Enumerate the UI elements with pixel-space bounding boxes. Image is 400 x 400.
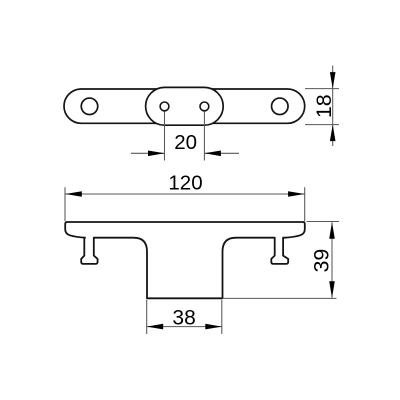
dimension 38: left arrow bbox=[147, 324, 164, 330]
svg-text:120: 120 bbox=[168, 171, 202, 194]
centre boss (top view bulge) bbox=[146, 87, 224, 125]
dimension 120: extension lines bbox=[65, 187, 305, 221]
dimension 18: extension lines bbox=[305, 89, 339, 125]
svg-text:18: 18 bbox=[312, 94, 336, 118]
dimension 39: top arrow bbox=[329, 222, 335, 239]
svg-text:20: 20 bbox=[174, 131, 197, 154]
svg-text:38: 38 bbox=[172, 306, 195, 329]
dimension 39: extension lines bbox=[223, 222, 340, 299]
svg-text:39: 39 bbox=[310, 249, 334, 273]
dimension 20: dimension line tails bbox=[131, 152, 239, 154]
dimension 39: dimension line bbox=[331, 222, 333, 297]
dimension 20: left arrow bbox=[148, 151, 165, 157]
dimension 18: bottom arrow bbox=[330, 125, 336, 142]
left screw hole bbox=[160, 102, 169, 111]
dimension 38: dimension line bbox=[147, 326, 222, 328]
right stud hole bbox=[272, 98, 289, 115]
right screw hole bbox=[200, 102, 209, 111]
dimension 120: dimension line bbox=[65, 193, 304, 195]
dimension 120: right arrow bbox=[288, 191, 305, 197]
dimension 18: top arrow bbox=[330, 72, 336, 89]
dimension 20: right arrow bbox=[204, 151, 221, 157]
dimension 20: extension lines bbox=[165, 112, 205, 161]
left stud hole bbox=[81, 98, 98, 115]
dimension 120: left arrow bbox=[65, 191, 82, 197]
dimension 39: bottom arrow bbox=[329, 281, 335, 298]
dimension 38: right arrow bbox=[205, 324, 222, 330]
handle profile bbox=[65, 222, 305, 298]
dimension 18: dimension line bbox=[332, 66, 334, 147]
plate outline (top view arms) bbox=[64, 89, 305, 123]
dimension 38: extension lines bbox=[147, 300, 222, 334]
